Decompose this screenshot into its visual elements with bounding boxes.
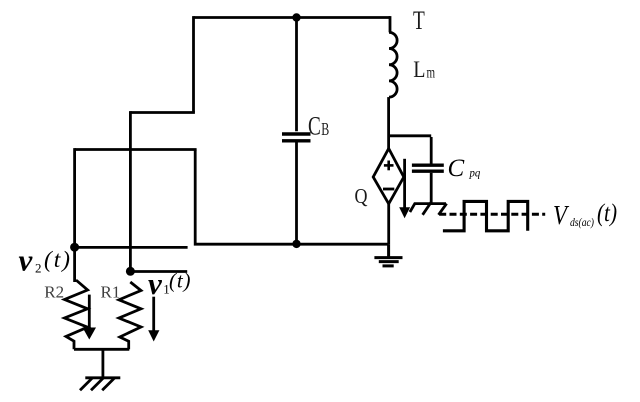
svg-text:R2: R2	[44, 283, 64, 302]
svg-text:C: C	[308, 112, 321, 141]
svg-text:(t): (t)	[169, 269, 191, 293]
wire top horizontal	[194, 16, 391, 19]
svg-text:R1: R1	[101, 283, 121, 302]
svg-text:m: m	[427, 65, 436, 82]
dependent source Q	[373, 149, 404, 204]
arrow v2	[83, 295, 97, 340]
dashed zero line	[439, 213, 545, 216]
wire v2 stub	[75, 246, 188, 249]
node v1	[126, 267, 135, 276]
inductor Lm	[389, 16, 398, 149]
capacitor CB	[282, 16, 311, 244]
node top junction	[292, 13, 300, 21]
wire source to bus	[387, 204, 390, 244]
node bus junction	[292, 240, 300, 248]
svg-text:2: 2	[35, 260, 42, 275]
wire resistor bottom bus	[74, 348, 129, 351]
arrow v1	[148, 297, 159, 342]
wire right rail with bottom bus	[195, 150, 388, 245]
svg-text:pq: pq	[469, 168, 481, 180]
svg-text:L: L	[413, 57, 425, 82]
capacitor Cpq	[412, 137, 444, 203]
wire left vertical	[192, 16, 195, 112]
wire ground stem	[102, 349, 105, 378]
waveform Vds square wave	[443, 201, 528, 230]
svg-text:ds(ac): ds(ac)	[570, 215, 594, 229]
svg-text:T: T	[413, 6, 425, 35]
node v2	[70, 243, 79, 252]
svg-text:(t): (t)	[597, 198, 617, 227]
wire second vertical	[129, 111, 132, 271]
svg-text:(t): (t)	[44, 247, 70, 273]
svg-text:v: v	[148, 266, 163, 301]
ground earth	[80, 378, 120, 391]
svg-text:Q: Q	[355, 184, 368, 208]
wire to Cpq	[389, 134, 432, 137]
resistor R2	[65, 280, 88, 349]
wire v1 stub	[130, 270, 187, 273]
ground signal	[374, 244, 402, 266]
svg-text:B: B	[321, 119, 329, 139]
wire v2 rail vertical	[73, 148, 76, 282]
hatched switch-node line	[410, 202, 447, 214]
svg-text:V: V	[553, 200, 570, 230]
current arrow	[399, 159, 410, 219]
svg-text:v: v	[19, 243, 34, 278]
resistor R1	[119, 282, 141, 349]
wire lower-left horizontal	[75, 148, 197, 151]
svg-text:C: C	[448, 155, 465, 182]
wire jog horizontal	[130, 111, 195, 114]
